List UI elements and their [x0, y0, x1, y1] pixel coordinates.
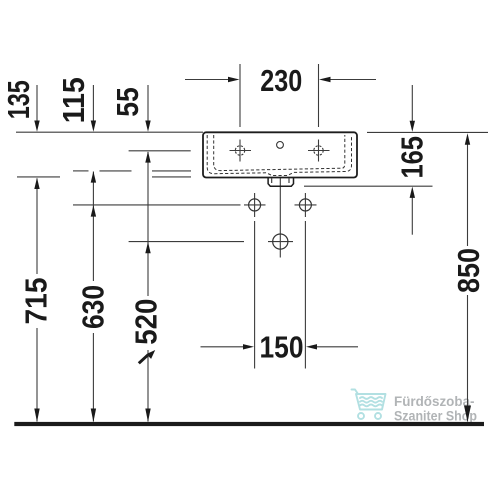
svg-text:630: 630 — [77, 285, 111, 329]
150 arrowhead right (points left) — [306, 344, 317, 349]
basin inner bowl hidden edge (outer dashed) — [207, 135, 351, 176]
fixing hole left extension line down — [254, 221, 256, 369]
630/115 arrowhead up at 115 reference — [91, 171, 96, 182]
135 arrowhead down at baseline — [34, 121, 39, 132]
150 arrowhead left (points right) — [243, 344, 254, 349]
115 arrowhead down at baseline — [91, 121, 96, 132]
630 bottom arrowhead down at floor — [91, 409, 96, 423]
tap hole right crosshair — [308, 140, 330, 162]
svg-text:520: 520 — [129, 299, 163, 345]
watermark shop cart icon — [352, 390, 386, 420]
tap hole left dashed circle — [235, 146, 244, 155]
715 dimension stem — [36, 179, 38, 422]
165 bottom stem — [411, 198, 413, 235]
715 bottom arrowhead down at floor — [34, 409, 39, 423]
55 reference line — [129, 150, 191, 152]
svg-text:230: 230 — [260, 64, 302, 98]
230 extension line left — [239, 64, 241, 127]
165 arrowhead up at lower line — [410, 187, 415, 198]
svg-text:Fürdőszoba-: Fürdőszoba- — [394, 394, 475, 409]
svg-text:715: 715 — [19, 277, 53, 324]
optional-height arrow (north-east) near 520 — [139, 350, 155, 363]
230 arrowhead right (points left) — [319, 77, 331, 82]
520 dimension stem — [147, 152, 149, 422]
fixing hole right extension line down — [304, 221, 306, 369]
230 arrowhead left (points right) — [228, 77, 240, 82]
svg-text:55: 55 — [111, 87, 145, 117]
fixing hole left cross tick horizontal — [244, 204, 266, 206]
siphon line (520 reference) — [129, 241, 244, 243]
230 extension line right — [318, 64, 320, 127]
siphon hole circle — [273, 234, 288, 249]
115 reference line segment a — [73, 170, 89, 172]
svg-text:165: 165 — [396, 136, 430, 179]
rim baseline left segment — [16, 131, 203, 133]
fixing hole right cross tick horizontal — [295, 204, 317, 206]
fixing hole left cross tick vertical — [254, 193, 256, 217]
basin bowl bottom hidden edge (inner dashed) — [214, 135, 345, 171]
135 arrow stem — [36, 85, 38, 122]
630 dimension stem — [92, 172, 94, 422]
overflow hole circle — [277, 142, 284, 149]
850 arrowhead up at baseline — [465, 133, 470, 144]
230 dimension line right part — [330, 79, 377, 81]
svg-text:150: 150 — [260, 331, 304, 365]
165 arrowhead down at baseline — [410, 121, 415, 132]
siphon centerline vertical — [279, 165, 281, 258]
135 reference line segment a — [17, 176, 60, 178]
135 reference line segment b — [152, 176, 191, 178]
520 bottom arrowhead down at floor — [145, 409, 150, 423]
230 dimension line left part — [185, 79, 230, 81]
rim baseline right segment — [367, 131, 488, 133]
drain outlet box — [268, 178, 293, 186]
150 dimension line left part — [201, 346, 246, 348]
fixing hole right circle — [299, 199, 311, 211]
floor line — [14, 422, 484, 426]
630 arrowhead up at fixing line — [91, 205, 96, 216]
svg-text:135: 135 — [2, 80, 36, 119]
715 top arrowhead up — [34, 178, 39, 189]
fixing holes line (630 reference) — [73, 204, 241, 206]
55 arrowhead down at baseline — [145, 121, 150, 132]
55 arrow stem — [147, 85, 149, 122]
115 reference line segment c — [152, 170, 191, 172]
fixing hole left circle — [249, 199, 261, 211]
tap hole right dashed circle — [314, 146, 323, 155]
115 arrow stem — [92, 85, 94, 122]
svg-text:115: 115 — [57, 77, 91, 123]
tap hole left crosshair — [230, 140, 252, 162]
150 dimension line right part — [316, 346, 358, 348]
165 top stem — [411, 85, 413, 122]
siphon cross tick horizontal — [268, 241, 293, 243]
svg-text:Szaniter Shop: Szaniter Shop — [394, 409, 477, 424]
850 dimension stem — [467, 144, 469, 422]
basin outer outline — [203, 132, 357, 177]
850 arrowhead down at floor — [464, 406, 471, 422]
115 reference line segment b — [100, 170, 132, 172]
drain inner flange verticals — [272, 178, 289, 183]
520/55 arrowhead up at 55 reference — [145, 151, 150, 162]
520 arrowhead up at siphon line — [145, 242, 150, 253]
svg-text:850: 850 — [452, 248, 486, 293]
165 reference line lower — [304, 185, 433, 187]
fixing hole right cross tick vertical — [304, 193, 306, 217]
